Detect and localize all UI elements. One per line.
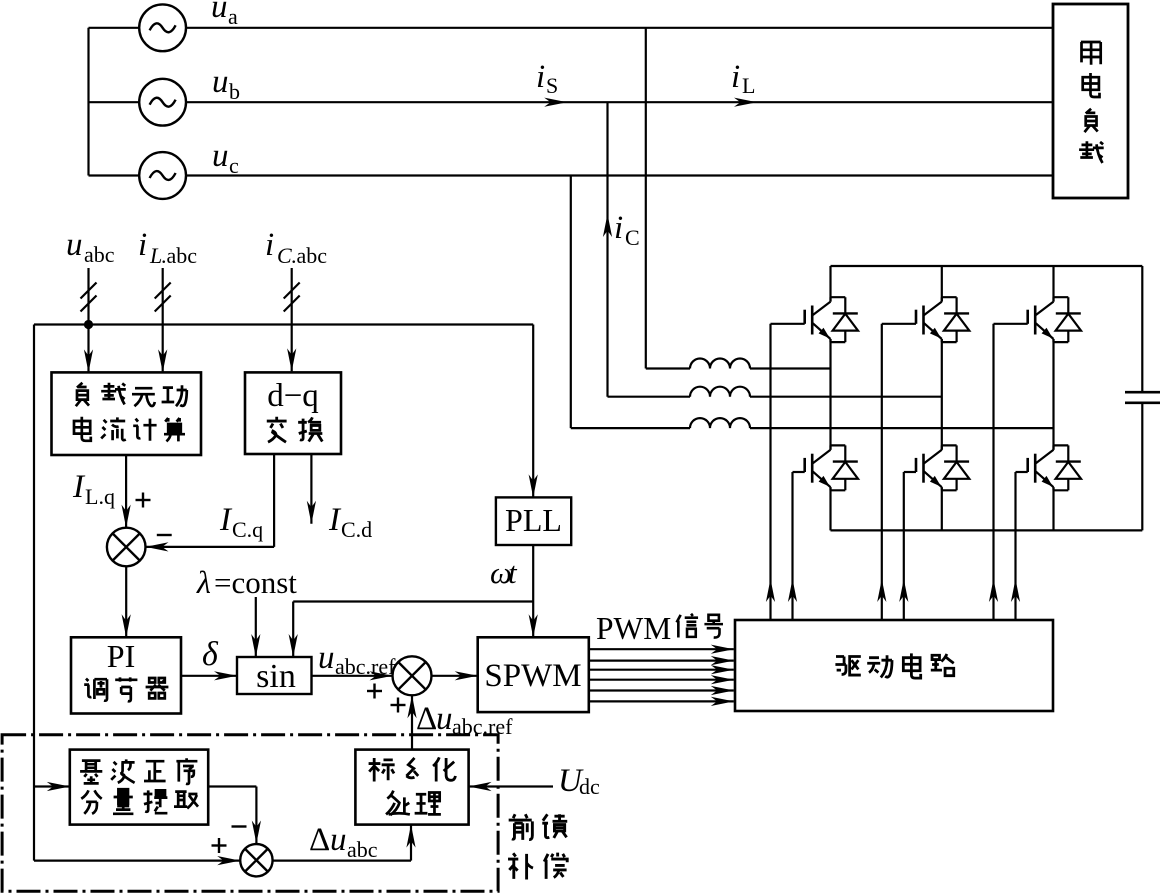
- wire: phase C drop to inverter: [570, 176, 572, 429]
- svg-text:a: a: [228, 4, 238, 29]
- summing junction S2: [240, 844, 272, 876]
- wire: PI to sin: [181, 675, 237, 677]
- label qian kui / bu chang: [509, 814, 533, 840]
- svg-text:C: C: [277, 243, 292, 268]
- wire: u_abc to PLL: [532, 325, 534, 498]
- wire: gate drive to Q5: [992, 324, 994, 620]
- wire: feedback left vertical: [33, 325, 35, 861]
- plus sign left of M1: [367, 690, 382, 692]
- svg-text:.abc: .abc: [161, 243, 197, 268]
- svg-text:c: c: [229, 153, 239, 178]
- wire: delta-u into M1 from below: [411, 695, 413, 749]
- svg-text:SPWM: SPWM: [484, 658, 581, 694]
- wire: gate drive to Q3: [881, 324, 883, 620]
- svg-text:I: I: [328, 502, 342, 538]
- wire: omega-t branch to sin: [293, 600, 533, 602]
- svg-text:L.q: L.q: [85, 484, 115, 509]
- summing junction S1: [107, 528, 146, 567]
- wire: PLL out to SPWM: [532, 545, 534, 637]
- gate lead Q2: [793, 471, 805, 473]
- block: load (yong dian fu zai): [1053, 4, 1128, 198]
- svg-text:u: u: [212, 138, 229, 174]
- svg-text:i: i: [536, 59, 545, 95]
- igbt Q4 (bottom, with antiparallel diode): [916, 445, 969, 490]
- svg-text:=const: =const: [214, 565, 297, 600]
- svg-text:I: I: [72, 469, 86, 505]
- minus sign at S2 top: [232, 825, 247, 827]
- wire: source bus left vertical: [87, 28, 89, 176]
- wire: S1 to PI regulator: [125, 566, 127, 637]
- wire: gate drive to Q2: [791, 472, 793, 620]
- svg-text:b: b: [229, 79, 240, 104]
- svg-text:u: u: [436, 701, 453, 737]
- block: PLL: [496, 497, 571, 545]
- block: SPWM: [478, 637, 589, 712]
- block: d-q transform: [245, 372, 341, 454]
- ac source ub: [89, 101, 140, 103]
- inductor Lb: [608, 396, 691, 398]
- svg-text:abc: abc: [347, 837, 378, 862]
- igbt Q1 (top, with antiparallel diode): [805, 297, 858, 342]
- wire: gate drive to Q6: [1014, 472, 1016, 620]
- block: drive circuit (qu dong dian lu): [735, 620, 1053, 711]
- capacitor C (dc link): [1141, 266, 1143, 392]
- wire: dc top bus: [831, 265, 1143, 267]
- wire: iL.abc sense with slashes: [162, 268, 164, 372]
- wire: sin to multiplier M1: [312, 675, 393, 677]
- svg-text:i: i: [614, 210, 623, 246]
- svg-text:i: i: [731, 59, 740, 95]
- wire phase C: [186, 174, 1053, 176]
- wire: feedback bottom into S2: [34, 859, 240, 861]
- block: per-unit processing (biao yao hua / chu li): [355, 750, 468, 825]
- wire: phase A drop to inverter: [645, 28, 647, 369]
- svg-text:Δ: Δ: [309, 822, 330, 858]
- ac source ua: [89, 27, 140, 29]
- block: sin: [237, 657, 312, 694]
- svg-text:u: u: [211, 0, 228, 25]
- wire: feedback into fundamental extraction: [34, 785, 70, 787]
- ac source uc: [89, 174, 140, 176]
- node: u_abc junction dot: [84, 320, 93, 329]
- wire: lambda to sin: [255, 597, 257, 657]
- igbt Q5 (top, with antiparallel diode): [1028, 297, 1081, 342]
- wire: leg 1: [829, 266, 831, 302]
- igbt Q2 (bottom, with antiparallel diode): [805, 445, 858, 490]
- minus sign at S1 right: [157, 534, 172, 536]
- svg-text:u: u: [66, 227, 83, 263]
- multiplier M1: [393, 656, 432, 695]
- block: fundamental positive-sequence extraction (ji bo zheng xu / fen liang ti qu): [70, 750, 208, 825]
- igbt Q6 (bottom, with antiparallel diode): [1028, 445, 1081, 490]
- wire: M1 to SPWM: [432, 675, 478, 677]
- svg-text:Δ: Δ: [416, 701, 437, 737]
- svg-text:dc: dc: [579, 774, 600, 799]
- svg-text:C.q: C.q: [232, 517, 263, 542]
- igbt Q3 (top, with antiparallel diode): [916, 297, 969, 342]
- svg-text:i: i: [138, 227, 147, 263]
- dashed box: feedforward compensation: [2, 735, 498, 891]
- plus sign at S2 left: [212, 844, 227, 846]
- svg-text:i: i: [265, 227, 274, 263]
- wire: gate drive to Q4: [903, 472, 905, 620]
- gate lead Q3: [882, 323, 916, 325]
- svg-text:u: u: [318, 640, 335, 676]
- wires: 6 PWM signal lines to drive circuit: [589, 648, 734, 650]
- svg-text:S: S: [546, 73, 558, 98]
- wire: U_dc into per-unit block: [469, 785, 553, 787]
- svg-text:I: I: [219, 502, 233, 538]
- svg-text:u: u: [212, 64, 229, 100]
- svg-text:PI: PI: [107, 638, 135, 674]
- svg-text:PWM: PWM: [596, 611, 671, 646]
- svg-text:abc: abc: [84, 242, 115, 267]
- wire: I_Cd output arrow: [310, 454, 312, 524]
- gate lead Q1: [771, 323, 805, 325]
- wire phase A: [186, 27, 1053, 29]
- gate lead Q4: [904, 471, 916, 473]
- wire: I_Cq from d-q to S1: [273, 454, 275, 547]
- svg-text:.abc: .abc: [291, 243, 327, 268]
- svg-text:d−q: d−q: [267, 378, 319, 414]
- gate lead Q5: [994, 323, 1028, 325]
- wire: u_abc feedback bus horizontal: [34, 323, 533, 325]
- svg-text:L: L: [742, 73, 755, 98]
- wire: iC.abc sense with slashes: [291, 268, 293, 371]
- inductor Lc: [571, 427, 690, 429]
- wire phase B: [186, 101, 1053, 103]
- wire: gate drive to Q1: [769, 324, 771, 620]
- wire: leg 3: [1052, 266, 1054, 302]
- wire: dc bottom bus: [831, 529, 1143, 531]
- svg-text:sin: sin: [256, 658, 296, 695]
- plus sign at S1 top: [136, 499, 151, 501]
- wire: phase B drop to inverter (iC): [606, 102, 608, 397]
- wire: I_Lq to summer S1: [125, 455, 127, 528]
- svg-text:C.d: C.d: [341, 517, 372, 542]
- gate lead Q6: [1016, 471, 1028, 473]
- plus sign below M1: [391, 704, 406, 706]
- wire: S2 to per-unit block: [273, 859, 411, 861]
- wire: u_abc sense with 3-phase slashes: [87, 268, 89, 372]
- inductor La: [646, 367, 690, 369]
- svg-text:u: u: [330, 822, 347, 858]
- wire: extraction output to summer S2: [208, 785, 256, 787]
- svg-text:C: C: [625, 225, 640, 250]
- svg-text:t: t: [508, 555, 518, 590]
- svg-text:δ: δ: [202, 636, 219, 673]
- block: PI regulator (PI / tiao jie qi): [71, 637, 181, 713]
- label iC and up arrow: [603, 214, 612, 237]
- svg-text:λ: λ: [196, 564, 211, 600]
- block: load reactive current calc (fu zai wu gong / dian liu ji suan): [52, 372, 202, 455]
- wire: leg 2: [941, 266, 943, 302]
- svg-text:PLL: PLL: [505, 502, 562, 538]
